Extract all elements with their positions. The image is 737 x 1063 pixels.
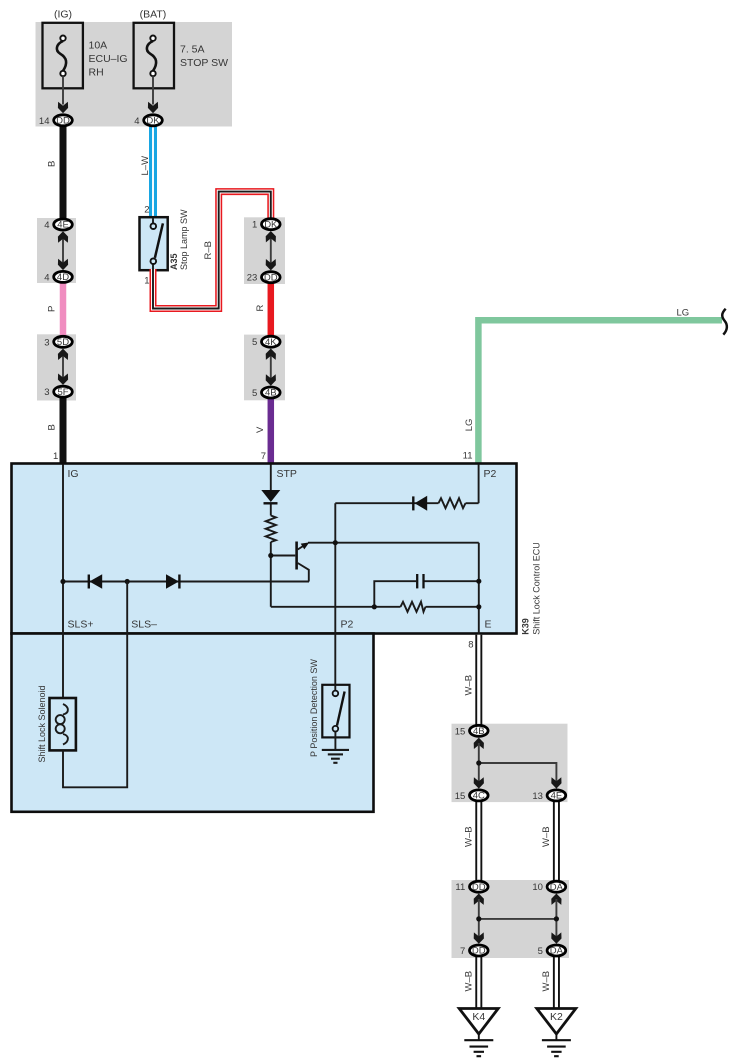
svg-text:13: 13 (532, 791, 543, 802)
wire break squiggle (722, 309, 727, 335)
svg-text:Shift Lock Solenoid: Shift Lock Solenoid (37, 685, 47, 762)
svg-text:1: 1 (53, 451, 58, 462)
node IG/diode row (60, 579, 65, 584)
connector 4E pin 13 (532, 790, 565, 802)
node capacitor branch (372, 604, 377, 609)
E vertical wire (478, 543, 480, 635)
svg-text:5D: 5D (57, 337, 69, 348)
svg-text:DA: DA (550, 882, 564, 893)
svg-text:5: 5 (252, 337, 257, 348)
ground (P position SW) (334, 732, 336, 750)
capacitor branch wire (374, 581, 416, 607)
gray connector block 4B/4C/4E (452, 724, 568, 802)
svg-text:B: B (47, 424, 58, 430)
svg-text:4B: 4B (265, 388, 277, 399)
svg-text:11: 11 (455, 882, 465, 893)
wire LG (light green) to ECU pin 11 (478, 320, 722, 464)
gray connector block 4K/4B (244, 335, 285, 401)
svg-text:4: 4 (134, 116, 139, 127)
svg-text:R–B: R–B (203, 241, 214, 259)
svg-text:4: 4 (44, 220, 49, 231)
connector 4E pin 4 (44, 219, 72, 231)
connector DD pin 23 (247, 272, 280, 284)
svg-text:DA: DA (550, 946, 564, 957)
connector 5F pin 3 (44, 386, 72, 398)
svg-text:5: 5 (252, 388, 257, 399)
svg-text:Shift Lock Control ECU: Shift Lock Control ECU (532, 542, 542, 635)
svg-text:23: 23 (247, 273, 258, 284)
connector ovals (39, 115, 566, 957)
svg-text:14: 14 (39, 116, 50, 127)
wire B (black) 5F to ECU pin 1 (60, 396, 67, 465)
svg-text:10A: 10A (89, 40, 108, 52)
diode D3 (below STP pin, pointing down) (261, 490, 280, 502)
resistor R2 (top branch) (439, 498, 466, 508)
gray connector block 5D/5F (37, 334, 76, 400)
connector DD pin 14 (39, 115, 72, 127)
node branch (476, 760, 481, 765)
node E/resistor (476, 604, 481, 609)
svg-text:15: 15 (455, 726, 466, 737)
svg-text:K4: K4 (472, 1011, 485, 1023)
resistor R3 (bottom) (401, 602, 426, 612)
gray connector block DD/DA (452, 880, 570, 958)
svg-text:R: R (255, 305, 266, 312)
node base junction (268, 553, 273, 558)
P2 pin 11 wire (478, 465, 480, 504)
wire W-B 4C to DD (475, 801, 482, 882)
diode D4 (top branch, pointing left) (412, 496, 414, 510)
svg-text:2: 2 (144, 205, 149, 216)
svg-text:STOP SW: STOP SW (180, 57, 228, 69)
connector 4B pin 15 (455, 725, 488, 737)
svg-text:W–B: W–B (541, 826, 552, 847)
svg-text:DD: DD (472, 946, 486, 957)
svg-text:10: 10 (532, 882, 543, 893)
svg-text:7: 7 (460, 946, 465, 957)
svg-text:L–W: L–W (140, 156, 151, 176)
ECU box lower section (12, 634, 374, 812)
svg-text:W–B: W–B (464, 826, 475, 847)
wire solenoid to SLS- (63, 582, 127, 788)
svg-text:4E: 4E (57, 220, 69, 231)
switch A35 Stop Lamp SW (140, 217, 168, 270)
connector 4K pin 5 (252, 336, 280, 348)
wire fuse F2 to connector DK (152, 76, 154, 104)
svg-text:W–B: W–B (464, 971, 475, 992)
wire W-B ECU pin 8 to 4B (475, 635, 482, 725)
gray connector block DK/DD (244, 217, 285, 284)
svg-text:DK: DK (146, 116, 160, 127)
connector DA pin 5 (538, 945, 566, 957)
svg-text:RH: RH (89, 67, 104, 79)
node SLS- top (125, 579, 130, 584)
fuse block gray panel (36, 22, 233, 127)
shift lock solenoid L1 (56, 704, 68, 745)
svg-text:V: V (255, 426, 266, 433)
connector DD pin 7 (460, 945, 488, 957)
svg-text:P2: P2 (484, 468, 497, 480)
gray connector block 4E/4D (37, 218, 76, 283)
P position detection switch SW1 (322, 685, 349, 738)
connector 4B pin 5 (252, 387, 280, 399)
svg-text:SLS+: SLS+ (68, 619, 94, 631)
connector 5D pin 3 (44, 336, 72, 348)
wire fuse F1 to connector DD (62, 76, 64, 104)
connector DD pin 11 (455, 881, 488, 893)
svg-text:DK: DK (264, 219, 278, 230)
wire B (black) DD to 4E (60, 124, 67, 220)
svg-text:P: P (47, 306, 58, 312)
ECU box K39 upper (12, 464, 517, 634)
emitter resistor row wire (271, 606, 401, 608)
node crosslink left (476, 916, 481, 921)
connector 4B arrows and branch (474, 738, 484, 749)
svg-text:W–B: W–B (541, 971, 552, 992)
svg-text:4D: 4D (57, 272, 69, 283)
svg-text:W–B: W–B (464, 675, 475, 696)
connector 4C pin 15 (455, 790, 488, 802)
wire W-B DD pin7 to K4 (475, 956, 482, 1010)
connector 4D pin 4 (44, 271, 72, 283)
svg-text:SLS–: SLS– (131, 619, 157, 631)
connector DA pin 10 (532, 881, 565, 893)
base wire to transistor Q1 (271, 555, 296, 557)
wire W-B DA pin5 to K2 (553, 956, 560, 1010)
wire R-B (red/black) stop lamp switch pin 1 to DK (153, 192, 271, 309)
svg-text:STP: STP (277, 468, 297, 480)
svg-text:1: 1 (144, 276, 149, 287)
connector arrows 4E/4D (62, 238, 64, 263)
svg-text:P2: P2 (341, 619, 354, 631)
connector arrows 4K/4B (270, 354, 272, 379)
node crosslink right (554, 916, 559, 921)
svg-text:P Position Detection SW: P Position Detection SW (309, 659, 319, 757)
P2 branch vertical wire to P position SW (334, 503, 336, 690)
svg-text:Stop Lamp SW: Stop Lamp SW (179, 209, 189, 270)
wire R (red) DD to 4K (268, 281, 275, 343)
svg-text:1: 1 (252, 220, 257, 231)
svg-text:IG: IG (68, 468, 79, 480)
wire STP pin down (270, 465, 272, 491)
connector DD/DA arrows and crosslink (474, 894, 484, 905)
svg-text:15: 15 (455, 791, 466, 802)
node collector/P2 (333, 540, 338, 545)
svg-text:4B: 4B (473, 726, 485, 737)
top branch wire (P2 pin to diode/resistor) (335, 502, 438, 504)
svg-text:3: 3 (44, 337, 49, 348)
svg-text:5: 5 (538, 946, 543, 957)
ground point K4 (459, 1009, 498, 1057)
svg-text:E: E (485, 619, 492, 631)
svg-text:4C: 4C (473, 791, 485, 802)
svg-text:B: B (47, 161, 58, 167)
svg-text:A35: A35 (169, 253, 179, 270)
svg-text:4: 4 (44, 272, 49, 283)
connector arrows DK/DD (270, 238, 272, 263)
svg-text:8: 8 (468, 640, 473, 651)
wire V (violet) 4B to ECU pin 7 (268, 396, 275, 465)
svg-text:3: 3 (44, 387, 49, 398)
svg-text:11: 11 (463, 450, 473, 461)
svg-text:DD: DD (264, 272, 278, 283)
svg-text:LG: LG (677, 307, 690, 318)
wire P (pink) 4D to 5D (60, 281, 67, 343)
svg-text:(IG): (IG) (54, 9, 72, 21)
transistor Q1 (297, 542, 310, 582)
resistor R1 (below STP diode) (266, 516, 276, 543)
svg-text:4E: 4E (551, 791, 563, 802)
connector DK pin 1 (252, 219, 280, 231)
svg-text:4K: 4K (265, 337, 277, 348)
svg-text:7: 7 (261, 451, 266, 462)
connector arrows 5D/5F (62, 354, 64, 379)
svg-text:DD: DD (56, 116, 70, 127)
svg-text:LG: LG (464, 419, 475, 432)
fuse F2 7.5A STOP SW (134, 23, 174, 89)
svg-text:ECU–IG: ECU–IG (89, 53, 128, 65)
svg-text:7. 5A: 7. 5A (180, 44, 205, 56)
svg-text:K39: K39 (521, 618, 531, 635)
fuse F1 10A ECU-IG RH (43, 23, 83, 89)
svg-text:DD: DD (472, 882, 486, 893)
ground point K2 (537, 1009, 576, 1057)
capacitor C1 (416, 574, 418, 588)
wire IG pin to diode row, continues as SLS+ (62, 465, 64, 699)
collector wire to E line (308, 542, 479, 544)
wire L-W (blue/white) DK to stop lamp switch pin 2 (149, 124, 157, 218)
svg-text:K2: K2 (550, 1011, 563, 1023)
diode D1 (on IG row, pointing left) (88, 575, 90, 589)
svg-text:(BAT): (BAT) (140, 9, 167, 21)
svg-text:5F: 5F (57, 387, 68, 398)
node E/capacitor (476, 579, 481, 584)
diode D2 (on IG row, pointing right) (166, 574, 179, 589)
diode row wire (63, 581, 309, 583)
wire W-B 4E to DA (553, 801, 560, 882)
connector DK pin 4 (134, 115, 162, 127)
